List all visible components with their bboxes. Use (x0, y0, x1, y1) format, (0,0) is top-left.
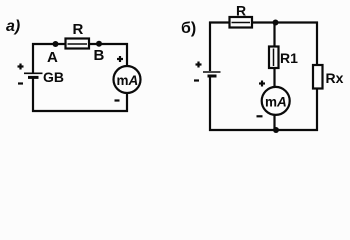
svg-text:Rx: Rx (326, 70, 344, 86)
svg-text:GB: GB (43, 69, 64, 85)
wire right upper loop b (316, 22, 318, 67)
junction node bottom (273, 127, 279, 133)
wire left side loop a (32, 43, 34, 73)
svg-text:B: B (94, 47, 105, 64)
wire middle branch mid (273, 67, 275, 88)
svg-text:R: R (73, 21, 84, 38)
wire top loop b (209, 21, 318, 23)
node B (94, 41, 105, 64)
milliammeter mA (circuit a) (114, 56, 141, 101)
wire left lower loop a (32, 78, 34, 112)
svg-text:б): б) (181, 20, 196, 37)
resistor R1 (269, 47, 298, 69)
wire right lower loop a (126, 92, 128, 112)
wire right lower loop b (316, 88, 318, 131)
wire bottom loop b (209, 129, 318, 131)
wire right upper loop a (126, 43, 128, 67)
wire top left loop (32, 43, 128, 45)
junction node top (273, 20, 279, 26)
svg-text:R1: R1 (280, 50, 298, 66)
battery GB (18, 64, 65, 86)
resistor Rx (313, 65, 344, 89)
svg-text:mA: mA (117, 73, 139, 88)
wire middle branch upper (273, 23, 275, 49)
battery (circuit b) (194, 62, 221, 81)
resistor R (circuit b) (230, 3, 253, 28)
svg-text:а): а) (6, 18, 20, 35)
resistor R (circuit a) (66, 21, 90, 49)
node A (47, 41, 59, 66)
wire middle branch lower (273, 114, 275, 130)
wire left upper loop b (209, 22, 211, 72)
svg-text:R: R (236, 3, 246, 19)
svg-text:mA: mA (265, 94, 287, 109)
wire left lower loop b (209, 77, 211, 131)
svg-text:A: A (47, 49, 58, 66)
wire bottom loop a (32, 110, 128, 112)
milliammeter mA (circuit b) (257, 81, 290, 117)
